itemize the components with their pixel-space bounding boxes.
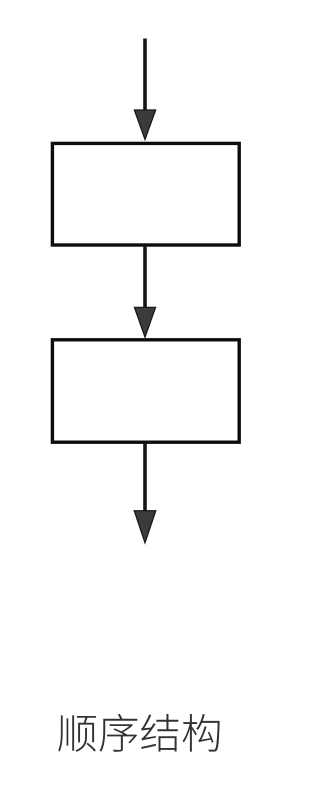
caption char 序 (xu) [100, 714, 138, 752]
caption char 构 (gou) [183, 714, 220, 752]
arrowhead of bottom exit arrow [134, 511, 156, 543]
wire: bottom exit arrow shaft [143, 444, 147, 514]
caption char 结 (jie) [141, 714, 178, 752]
arrowhead of middle connector arrow [134, 307, 155, 337]
caption char 顺 (shun) [58, 715, 96, 752]
wire: top entry arrow shaft [143, 39, 147, 115]
process box 2 (empty rectangle) [52, 340, 239, 442]
wire: middle connector arrow shaft [143, 247, 147, 311]
caption 顺序结构 (sequential structure) [58, 714, 219, 752]
arrowhead of top entry arrow [134, 110, 155, 140]
process box 1 (empty rectangle) [52, 143, 239, 245]
